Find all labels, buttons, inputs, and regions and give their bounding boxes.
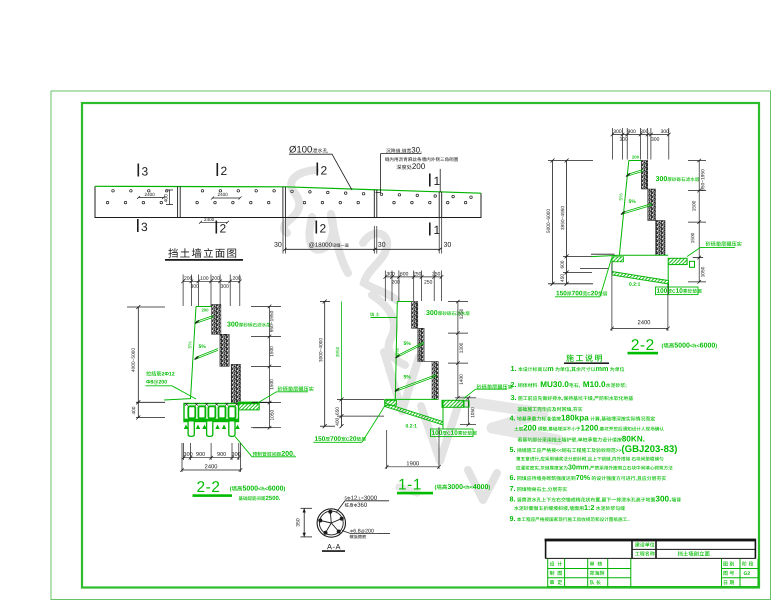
piles	[188, 422, 194, 437]
section 2-2 right : wall crest	[629, 160, 642, 162]
weep hole row bottom	[106, 201, 467, 204]
title block top bar	[545, 539, 756, 542]
ground left	[591, 253, 615, 255]
note line 3	[511, 395, 633, 401]
filter layer label	[227, 322, 270, 327]
ground line left of wall	[164, 399, 191, 400]
note line 8	[510, 445, 677, 454]
leader to joint4	[439, 169, 441, 192]
dim 2400 segment2	[211, 197, 242, 200]
note line 10	[516, 464, 672, 470]
section mark 2a bottom	[216, 221, 226, 234]
section 2-2 left : masonry back step 2	[220, 334, 229, 366]
slab top hatch marks	[185, 403, 188, 406]
note line 9	[516, 457, 663, 462]
sloped lean concrete band	[612, 272, 669, 285]
section 2-2 right : footing	[619, 254, 668, 256]
section 2-2 left : masonry back step 1	[212, 305, 221, 335]
filter label	[656, 176, 699, 181]
watermark stroke u	[309, 214, 348, 273]
note line 14	[514, 505, 625, 511]
expansion joint 3	[374, 190, 377, 218]
section mark 3 bottom	[137, 219, 147, 232]
section 2-2 left : wall crest	[196, 306, 212, 308]
note line 2	[511, 381, 627, 387]
watermark bar	[399, 487, 417, 493]
toe pad	[385, 400, 397, 405]
backfill level line	[371, 317, 398, 319]
note line 13	[510, 496, 681, 502]
title A-A	[327, 544, 340, 549]
weep hole row top	[112, 190, 473, 199]
masonry steps	[641, 161, 647, 190]
note line 11	[510, 475, 666, 481]
watermark stroke S	[284, 170, 315, 233]
watermark stroke z	[363, 234, 396, 300]
construction notes header	[566, 354, 602, 361]
watermark stroke l	[372, 295, 405, 365]
title elevation view	[168, 248, 236, 258]
expansion joint 4	[439, 192, 442, 218]
section 1-1 : top dimension chain	[384, 271, 444, 302]
small marker box	[464, 401, 469, 407]
elevation wall band outline	[95, 186, 481, 217]
dim joint spacing 18000	[283, 218, 442, 254]
note line 4	[518, 407, 583, 412]
gravel pad right	[442, 400, 464, 407]
filter label	[426, 310, 469, 315]
title block black grid	[546, 539, 756, 559]
outer border frame	[51, 91, 771, 600]
section 2-2 right : left dims	[552, 161, 554, 284]
title block green grid	[548, 559, 758, 587]
section 2-2 left : bottom dimension chain	[180, 443, 242, 472]
slope labels 5%	[188, 342, 192, 349]
section 2-2 right : wall front face	[619, 161, 628, 256]
section 2-2 left : weep pipe lower	[196, 349, 219, 360]
section 2-2 left : weep pipe upper	[196, 316, 214, 324]
section 2-2 right : title	[632, 339, 654, 350]
expansion joint 2	[283, 187, 286, 218]
section mark 1 top	[429, 174, 440, 187]
section 1-1 : bottom dim 1900	[385, 427, 441, 469]
weep pipes	[627, 170, 643, 177]
title block labels	[635, 542, 655, 547]
compaction triangles	[184, 425, 188, 430]
watermark stroke v3	[468, 470, 497, 500]
section mark 2a top	[217, 163, 227, 176]
section 1-1 : wall crest	[397, 301, 411, 303]
note line 7	[518, 436, 645, 442]
section 1-1 : footing	[384, 399, 386, 403]
section 1-1 : title	[399, 479, 420, 490]
weep pipes	[397, 342, 425, 358]
section 2-2 right : top dimension chain	[611, 128, 671, 160]
small marker box C	[690, 261, 695, 267]
section 2-2 right : bottom dim 2400	[610, 262, 670, 331]
section 2-2 left : masonry back step 3	[231, 364, 240, 402]
leader to joint3	[376, 153, 381, 192]
expansion joint 1	[178, 186, 181, 217]
section 2-2 left : right dimension chain	[251, 305, 281, 430]
dim 350	[303, 508, 305, 537]
inner border frame	[82, 103, 759, 588]
leader rebar label	[337, 501, 389, 512]
gravel bed annotation 1-1	[477, 384, 513, 389]
section 1-1 : masonry step3	[432, 362, 438, 400]
C20 pad annotation	[315, 436, 366, 441]
label weep hole	[289, 146, 327, 153]
dim 2400 segment1	[137, 196, 165, 199]
section 1-1 : right dimension chain	[448, 300, 476, 427]
left dim vertical	[137, 307, 139, 418]
dim 2400 below band	[199, 221, 229, 224]
pile annotation	[235, 436, 296, 456]
rebar annotation	[146, 371, 174, 376]
section mark 1 bottom	[429, 223, 440, 236]
section 1-1 : left dims	[324, 302, 326, 427]
strip levels black	[252, 401, 272, 403]
watermark stroke v2	[421, 406, 457, 461]
section 1-1 : masonry step1	[412, 302, 418, 329]
section 1-1 : wall front face	[395, 302, 397, 400]
section 1-1 : masonry step2	[418, 328, 424, 361]
leader hoop label	[342, 531, 377, 534]
section 2-2 left : top dimension chain	[181, 275, 241, 307]
note line 15	[510, 516, 630, 521]
lean concrete annotation	[657, 288, 702, 293]
elevation wall top green line	[95, 186, 481, 193]
section mark 2b top	[317, 163, 327, 176]
section 2-2 left : gravel strip right of slab	[239, 403, 260, 410]
rebar spokes	[330, 512, 331, 523]
pile section A-A circle	[317, 509, 345, 537]
section 2-2 right : right dimension chain	[688, 159, 706, 284]
watermark stroke v1	[384, 352, 419, 411]
toe pad	[612, 257, 624, 262]
gravel pad	[668, 258, 687, 264]
gravel bed annotation right	[706, 241, 742, 246]
watermark wedge	[462, 401, 558, 440]
note line 6	[514, 425, 664, 431]
note line 5	[510, 415, 655, 423]
lean concrete annotation	[432, 430, 477, 435]
section 2-2 left : title	[197, 481, 219, 492]
note line 12	[510, 486, 567, 492]
C20 pad annotation left	[556, 291, 607, 296]
dim 400 vertical at joint1	[166, 190, 173, 206]
section mark 2b bottom	[316, 221, 326, 234]
section 2-2 left : wall front face	[191, 307, 197, 400]
section mark 3 top	[138, 164, 148, 177]
note line 1	[511, 366, 624, 372]
section 2-2 left : left levels	[136, 401, 165, 403]
sloped lean concrete band 1-1	[385, 403, 443, 425]
gravel bed annotation	[278, 386, 314, 391]
settlement joint note	[386, 147, 421, 153]
section 2-2 left : pile cap slab	[184, 404, 239, 422]
